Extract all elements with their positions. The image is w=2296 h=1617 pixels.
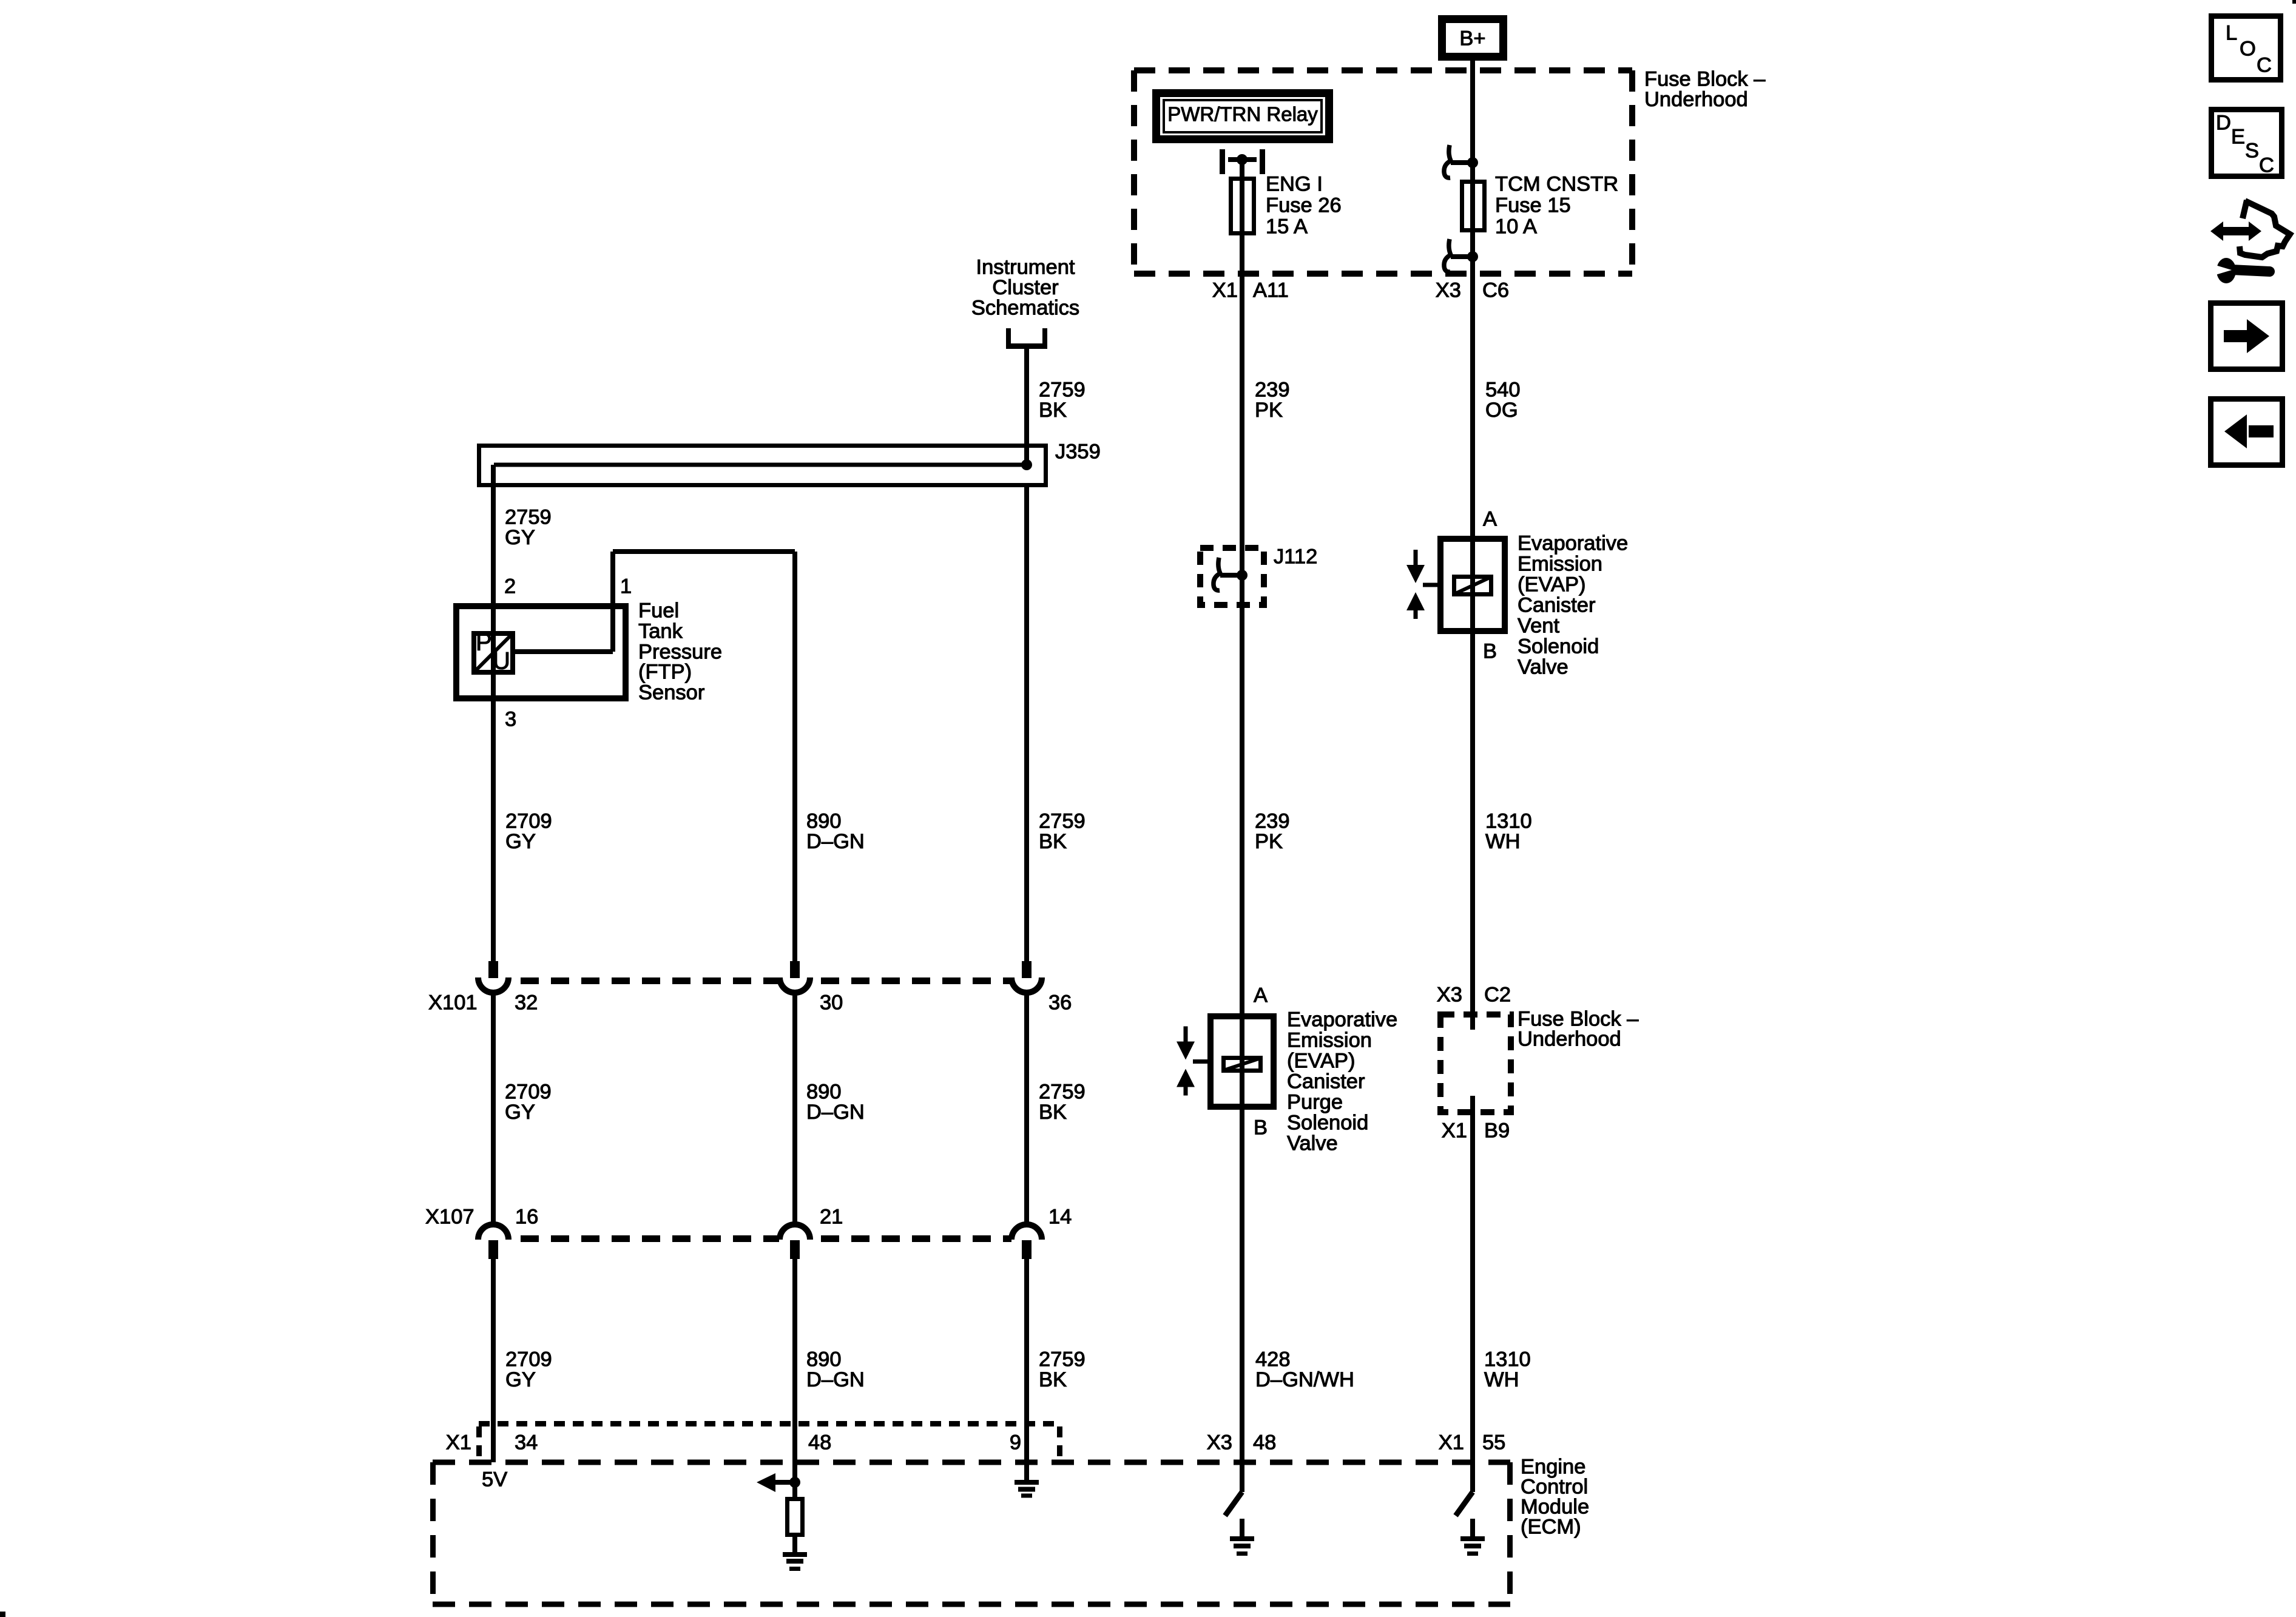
connector X107 pin 16 — [478, 1224, 508, 1259]
wire label 890 D-GN lower — [806, 1081, 865, 1124]
svg-text:J112: J112 — [1274, 545, 1317, 569]
svg-text:540: 540 — [1485, 379, 1521, 402]
wire label 2709 GY bottom — [505, 1348, 552, 1392]
wire 540 OG X3 C6 to vent valve — [1470, 322, 1475, 536]
wire 890 D-GN X107 to ECM — [792, 1259, 797, 1462]
svg-text:48: 48 — [1253, 1431, 1276, 1454]
svg-text:TCM CNSTR: TCM CNSTR — [1495, 173, 1618, 196]
svg-text:2759: 2759 — [1039, 379, 1086, 402]
svg-text:1310: 1310 — [1484, 1348, 1531, 1371]
fuse block underhood dashed box — [1134, 70, 1632, 274]
svg-text:D–GN/WH: D–GN/WH — [1255, 1368, 1354, 1391]
ECM ground below switch X3 48 — [1230, 1519, 1254, 1556]
svg-text:Underhood: Underhood — [1644, 88, 1748, 111]
wire label 2759 BK lower — [1039, 1081, 1086, 1124]
svg-text:32: 32 — [515, 991, 538, 1014]
svg-text:U: U — [493, 648, 510, 675]
svg-text:WH: WH — [1484, 1368, 1519, 1391]
icon arrow left box — [2211, 399, 2283, 465]
ECM connector labels X1 34 48 9 — [446, 1431, 1021, 1454]
FTP sensor description — [638, 599, 722, 704]
svg-text:X1: X1 — [1442, 1119, 1467, 1143]
wire label 428 D-GN/WH bottom — [1255, 1348, 1354, 1392]
EVAP canister purge solenoid valve — [1177, 1013, 1274, 1110]
fuse block lower label — [1518, 1008, 1639, 1051]
ECM ground below switch X1 55 — [1460, 1519, 1485, 1556]
svg-text:X107: X107 — [425, 1206, 474, 1229]
wire 2709 GY X101 to X107 — [491, 995, 496, 1223]
svg-text:2709: 2709 — [505, 1081, 552, 1104]
instrument cluster schematics label — [971, 256, 1079, 320]
splice pack J359 — [479, 446, 1046, 485]
svg-text:Emission: Emission — [1287, 1029, 1372, 1052]
connector row X107 dashed line — [521, 1235, 1011, 1242]
wire label 2759 BK upper — [1039, 379, 1086, 422]
connector row X101 dashed line — [521, 977, 1011, 984]
fuse block lower X1 B9 labels — [1442, 1119, 1510, 1143]
wire 2709 GY FTP pin 3 down — [491, 701, 496, 961]
svg-text:428: 428 — [1255, 1348, 1291, 1371]
fuse block lower X3 C2 labels — [1437, 984, 1511, 1007]
fuse TCM CNSTR label — [1495, 173, 1618, 238]
wire fuse ENG I to X1 A11 — [1240, 235, 1244, 322]
svg-text:D–GN: D–GN — [806, 1101, 865, 1124]
svg-text:Valve: Valve — [1287, 1132, 1338, 1155]
wire 2759 BK X101 to X107 — [1024, 995, 1029, 1223]
wire label 2759 BK mid — [1039, 810, 1086, 854]
svg-text:BK: BK — [1039, 399, 1067, 422]
svg-text:E: E — [2231, 126, 2245, 149]
splice clip above TCM fuse — [1444, 145, 1478, 178]
svg-text:2759: 2759 — [1039, 1348, 1086, 1371]
wire 2759 BK J359 to X101 — [1024, 487, 1029, 961]
fuel tank pressure FTP sensor box — [456, 603, 626, 701]
svg-text:(ECM): (ECM) — [1521, 1516, 1581, 1539]
wire label 2759 GY — [505, 506, 552, 550]
wire label 1310 WH mid — [1485, 810, 1532, 854]
ECM driver switch X3 48 — [1225, 1462, 1244, 1516]
svg-text:A: A — [1254, 984, 1268, 1007]
svg-text:Fuel: Fuel — [638, 599, 679, 623]
svg-text:X101: X101 — [428, 991, 478, 1014]
svg-text:Valve: Valve — [1518, 656, 1568, 679]
svg-text:2759: 2759 — [1039, 810, 1086, 833]
svg-text:2759: 2759 — [1039, 1081, 1086, 1104]
connector X101 pin 36 — [1011, 961, 1042, 993]
battery feed B+ symbol — [1442, 19, 1504, 57]
wire relay to fuse ENG I — [1240, 160, 1244, 177]
wire 2759 BK instrument cluster to J359 — [1024, 349, 1029, 465]
svg-text:BK: BK — [1039, 1368, 1067, 1391]
svg-text:A: A — [1483, 508, 1497, 531]
connector row X101 labels — [428, 991, 1072, 1014]
connector X107 pin 14 — [1011, 1224, 1042, 1259]
svg-text:Sensor: Sensor — [638, 681, 704, 704]
svg-text:P: P — [476, 629, 492, 656]
wire label 239 PK mid — [1255, 810, 1290, 854]
svg-text:BK: BK — [1039, 1101, 1067, 1124]
svg-text:239: 239 — [1255, 810, 1290, 833]
svg-text:10 A: 10 A — [1495, 215, 1537, 238]
EVAP canister vent solenoid valve — [1406, 536, 1505, 634]
ECM ground pin 9 — [1015, 1462, 1039, 1498]
svg-text:X1: X1 — [446, 1431, 471, 1454]
svg-text:OG: OG — [1485, 399, 1518, 422]
wire label 2759 BK bottom — [1039, 1348, 1086, 1392]
svg-text:Purge: Purge — [1287, 1091, 1343, 1114]
svg-text:890: 890 — [806, 1348, 842, 1371]
ECM connector labels X1 55 — [1439, 1431, 1506, 1454]
wire TCM fuse to X3 C6 — [1470, 257, 1475, 322]
svg-text:Tank: Tank — [638, 620, 683, 643]
svg-text:(EVAP): (EVAP) — [1287, 1050, 1355, 1073]
svg-text:1310: 1310 — [1485, 810, 1532, 833]
svg-text:890: 890 — [806, 810, 842, 833]
relay PWR/TRN box — [1156, 93, 1329, 140]
wire label 890 D-GN bottom — [806, 1348, 865, 1392]
ECM driver switch X1 55 — [1456, 1462, 1475, 1516]
fuse ENG I label — [1266, 173, 1342, 238]
wire 428 D-GN/WH purge valve to ECM — [1240, 1110, 1244, 1492]
icon wiring harness with wrench — [2210, 200, 2290, 283]
svg-text:GY: GY — [505, 830, 536, 853]
svg-text:Vent: Vent — [1518, 615, 1559, 638]
svg-text:GY: GY — [505, 526, 535, 549]
wire B+ to fuse block — [1470, 61, 1475, 163]
wire label 540 OG — [1485, 379, 1521, 422]
wire 2759 BK X107 to ECM — [1024, 1259, 1029, 1462]
svg-text:21: 21 — [820, 1206, 843, 1229]
svg-text:Fuse 26: Fuse 26 — [1266, 194, 1342, 217]
svg-text:Evaporative: Evaporative — [1287, 1008, 1397, 1031]
svg-text:Canister: Canister — [1518, 594, 1595, 617]
svg-text:GY: GY — [505, 1368, 536, 1391]
svg-text:Fuse 15: Fuse 15 — [1495, 194, 1571, 217]
svg-text:(FTP): (FTP) — [638, 661, 692, 684]
svg-text:X1: X1 — [1212, 279, 1238, 302]
svg-text:36: 36 — [1048, 991, 1072, 1014]
ECM internal node 48 with signal arrow — [757, 1462, 800, 1492]
svg-text:X3: X3 — [1207, 1431, 1232, 1454]
page corner speck bottom left — [0, 1612, 5, 1617]
wire 1310 WH vent valve to fuse block X3 C2 — [1470, 634, 1475, 1030]
svg-text:A11: A11 — [1253, 279, 1289, 302]
svg-text:PK: PK — [1255, 399, 1283, 422]
svg-text:239: 239 — [1255, 379, 1290, 402]
wire label 1310 WH bottom — [1484, 1348, 1531, 1392]
fuse TCM CNSTR Fuse 15 10A — [1462, 163, 1485, 257]
svg-text:9: 9 — [1010, 1431, 1021, 1454]
svg-text:15 A: 15 A — [1266, 215, 1308, 238]
svg-text:Instrument: Instrument — [976, 256, 1075, 279]
wire 2709 GY X107 to ECM — [491, 1259, 496, 1462]
wire 890 D-GN X101 to X107 — [792, 995, 797, 1223]
icon LOC box — [2212, 16, 2281, 80]
svg-text:30: 30 — [820, 991, 843, 1014]
wire 890 D-GN FTP pin 1 to column — [613, 549, 797, 961]
svg-text:B: B — [1483, 640, 1497, 663]
wire label 2709 GY mid — [505, 810, 552, 854]
svg-text:34: 34 — [515, 1431, 538, 1454]
svg-text:C6: C6 — [1482, 279, 1509, 302]
splice J112 clip and junction — [1214, 558, 1248, 590]
connector X101 pin 32 — [478, 961, 508, 993]
wire 1310 WH fuse block to ECM — [1470, 1096, 1475, 1492]
svg-text:16: 16 — [515, 1206, 538, 1229]
FTP sensor internal wire pin 1 — [515, 552, 615, 654]
svg-text:B+: B+ — [1459, 27, 1485, 50]
fuse ENG I Fuse 26 15A — [1231, 177, 1254, 235]
svg-text:D–GN: D–GN — [806, 830, 865, 853]
splice clip below TCM fuse — [1444, 239, 1478, 272]
svg-text:L: L — [2226, 22, 2237, 45]
ECM connector dotted line — [479, 1424, 1060, 1463]
ECM internal ground for resistor — [783, 1537, 807, 1571]
purge valve description — [1287, 1008, 1397, 1155]
svg-text:O: O — [2240, 38, 2256, 61]
page corner speck top right — [2292, 0, 2296, 4]
svg-text:C2: C2 — [1484, 984, 1511, 1007]
svg-text:(EVAP): (EVAP) — [1518, 573, 1585, 596]
svg-text:2709: 2709 — [505, 1348, 552, 1371]
svg-text:Evaporative: Evaporative — [1518, 532, 1628, 555]
svg-text:2759: 2759 — [505, 506, 552, 529]
off-page connector to instrument cluster — [1006, 328, 1047, 349]
wire label 2709 GY lower — [505, 1081, 552, 1124]
svg-text:J359: J359 — [1055, 441, 1101, 464]
svg-text:B9: B9 — [1484, 1119, 1510, 1143]
svg-text:Solenoid: Solenoid — [1518, 635, 1599, 658]
svg-text:B: B — [1254, 1116, 1268, 1139]
svg-text:Schematics: Schematics — [971, 297, 1079, 320]
fuse block underhood lower dashed box — [1440, 1014, 1511, 1112]
connector X101 pin 30 — [780, 961, 810, 993]
svg-text:S: S — [2245, 140, 2259, 163]
vent valve description — [1518, 532, 1628, 679]
svg-text:X3: X3 — [1436, 279, 1461, 302]
svg-text:PK: PK — [1255, 830, 1283, 853]
svg-text:WH: WH — [1485, 830, 1520, 853]
svg-text:14: 14 — [1048, 1206, 1072, 1229]
ECM connector labels X3 48 — [1207, 1431, 1277, 1454]
svg-text:D–GN: D–GN — [806, 1368, 865, 1391]
connector X107 pin 21 — [780, 1224, 810, 1259]
svg-text:Solenoid: Solenoid — [1287, 1112, 1368, 1135]
svg-text:ENG I: ENG I — [1266, 173, 1323, 196]
svg-text:BK: BK — [1039, 830, 1067, 853]
ECM label — [1521, 1456, 1589, 1539]
splice J112 dashed box — [1200, 548, 1264, 605]
svg-text:2709: 2709 — [505, 810, 552, 833]
icon arrow right box — [2211, 303, 2283, 370]
svg-text:Canister: Canister — [1287, 1070, 1365, 1093]
wire label 239 PK upper — [1255, 379, 1290, 422]
svg-text:Underhood: Underhood — [1518, 1028, 1621, 1051]
fuse block underhood label — [1644, 68, 1766, 112]
svg-text:Emission: Emission — [1518, 553, 1602, 576]
svg-text:5V: 5V — [482, 1468, 507, 1491]
icon DESC box — [2212, 110, 2282, 177]
svg-text:890: 890 — [806, 1081, 842, 1104]
svg-text:GY: GY — [505, 1101, 535, 1124]
svg-text:Cluster: Cluster — [992, 276, 1058, 299]
svg-text:55: 55 — [1482, 1431, 1505, 1454]
ECM internal resistor — [788, 1487, 803, 1535]
svg-text:C: C — [2257, 54, 2272, 77]
wire label 890 D-GN mid — [806, 810, 865, 854]
svg-text:X3: X3 — [1437, 984, 1462, 1007]
svg-text:Fuse Block –: Fuse Block – — [1644, 68, 1766, 91]
svg-text:48: 48 — [808, 1431, 831, 1454]
svg-text:C: C — [2259, 154, 2274, 177]
connector label X1 A11 — [1212, 279, 1289, 302]
svg-text:D: D — [2216, 112, 2231, 135]
engine control module dashed box — [433, 1462, 1510, 1604]
svg-text:X1: X1 — [1439, 1431, 1464, 1454]
wire 239 PK J112 to purge valve — [1240, 575, 1244, 1013]
svg-text:2: 2 — [504, 575, 516, 598]
wire 239 PK fuse to J112 — [1240, 322, 1244, 575]
connector label X3 C6 — [1436, 279, 1509, 302]
connector row X107 labels — [425, 1206, 1072, 1229]
wire 2759 GY J359 to FTP sensor pin 2 — [491, 465, 496, 603]
svg-text:3: 3 — [505, 708, 516, 731]
relay output terminal bracket — [1220, 149, 1265, 174]
svg-text:PWR/TRN Relay: PWR/TRN Relay — [1167, 103, 1318, 126]
svg-text:1: 1 — [620, 575, 632, 598]
